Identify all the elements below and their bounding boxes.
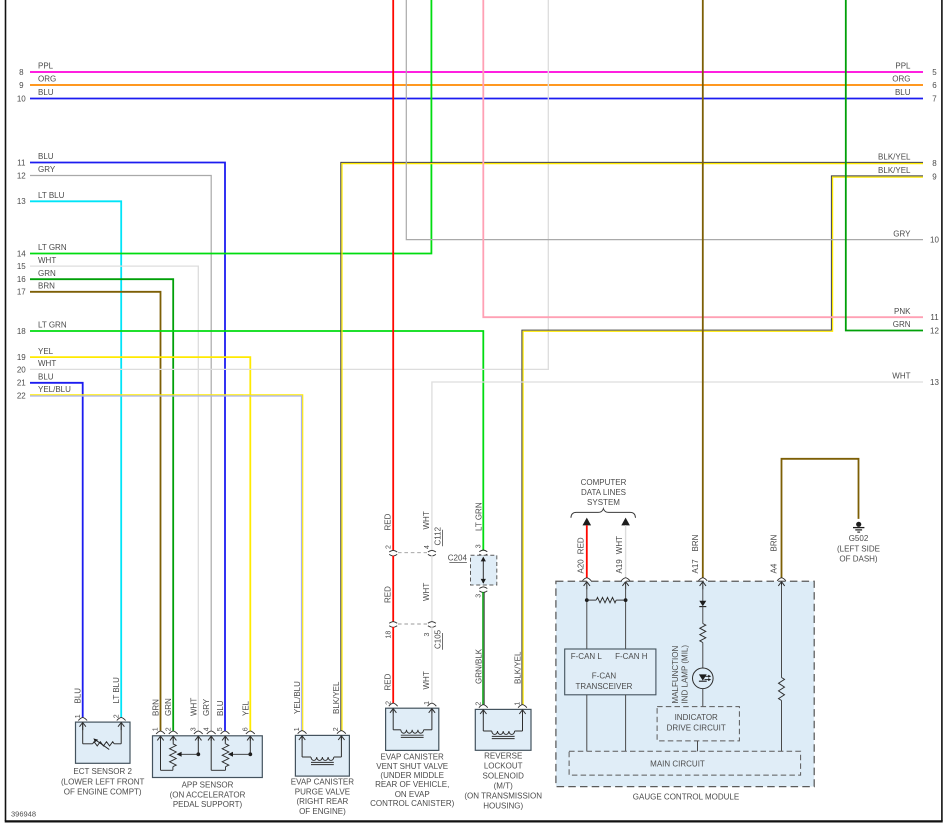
svg-text:MALFUNCTION: MALFUNCTION <box>671 646 680 704</box>
wire BRN from top of page to gauge module pin A17 <box>702 0 704 578</box>
svg-text:BLK/YEL: BLK/YEL <box>514 651 523 684</box>
svg-text:RED: RED <box>383 673 392 690</box>
svg-text:11: 11 <box>930 313 939 322</box>
svg-text:22: 22 <box>17 391 26 400</box>
svg-text:YEL: YEL <box>241 700 250 716</box>
svg-text:RED: RED <box>383 513 392 530</box>
svg-text:BLK/YEL: BLK/YEL <box>878 153 911 162</box>
svg-text:C105: C105 <box>434 629 443 649</box>
svg-text:ON EVAP: ON EVAP <box>395 790 430 799</box>
wire BLK/YEL right row 8 to EVAP purge valve pin 2 <box>341 162 923 730</box>
potentiometer 2 inside APP sensor <box>210 736 212 771</box>
svg-text:(UNDER MIDDLE: (UNDER MIDDLE <box>380 771 444 780</box>
svg-text:BLK/YEL: BLK/YEL <box>332 681 341 714</box>
resistor between A20 and A19 CAN lines <box>587 599 596 601</box>
svg-text:G502: G502 <box>849 534 869 543</box>
svg-text:DRIVE CIRCUIT: DRIVE CIRCUIT <box>667 723 726 732</box>
wire LT GRN row 18 to connector C204 pin 3 <box>30 331 483 551</box>
svg-text:BLU: BLU <box>895 88 911 97</box>
wire GRY right row 10 from top of page <box>406 0 923 240</box>
svg-text:LT BLU: LT BLU <box>38 191 65 200</box>
wire LT BLU row 13 to ECT sensor pin 2 <box>30 201 121 717</box>
svg-text:LT GRN: LT GRN <box>38 243 67 252</box>
dashed connector line C105 <box>398 623 427 625</box>
svg-text:YEL: YEL <box>38 347 54 356</box>
svg-text:WHT: WHT <box>422 583 431 601</box>
wire MIL to indicator drive circuit <box>702 689 704 707</box>
svg-text:11: 11 <box>17 158 26 167</box>
svg-text:GRN: GRN <box>164 698 173 716</box>
svg-text:(RIGHT REAR: (RIGHT REAR <box>296 797 348 806</box>
svg-text:YEL/BLU: YEL/BLU <box>293 681 302 714</box>
svg-text:GRY: GRY <box>202 698 211 716</box>
svg-text:20: 20 <box>17 365 26 374</box>
malfunction indicator lamp MIL <box>693 668 714 689</box>
svg-text:(ON TRANSMISSION: (ON TRANSMISSION <box>464 792 542 801</box>
svg-text:A4: A4 <box>770 563 779 573</box>
svg-text:8: 8 <box>932 159 937 168</box>
wire LT GRN row 14 from top of page <box>30 0 431 254</box>
wire F-CAN H to main circuit <box>625 695 627 753</box>
wire GRN row 16 to APP sensor pin 2 <box>30 279 173 731</box>
svg-text:15: 15 <box>17 262 26 271</box>
svg-text:LT BLU: LT BLU <box>112 677 121 704</box>
INDICATOR DRIVE CIRCUIT dashed block <box>657 707 739 741</box>
svg-text:A20: A20 <box>576 559 585 574</box>
wire GRY row 12 to APP sensor pin 4 <box>30 176 211 731</box>
connector C204 inline connector <box>471 555 497 585</box>
svg-text:WHT: WHT <box>892 372 910 381</box>
ECT sensor 2 box <box>76 722 131 763</box>
wire indicator drive circuit to main circuit <box>697 741 699 752</box>
svg-text:PEDAL SUPPORT): PEDAL SUPPORT) <box>173 800 243 809</box>
svg-text:13: 13 <box>930 378 939 387</box>
svg-text:OF ENGINE): OF ENGINE) <box>299 807 346 816</box>
svg-text:REVERSE: REVERSE <box>484 752 522 761</box>
svg-text:1: 1 <box>424 701 431 705</box>
svg-text:LT GRN: LT GRN <box>474 502 483 531</box>
svg-text:13: 13 <box>17 197 26 206</box>
svg-text:GRY: GRY <box>893 229 911 238</box>
wire WHT segment between C112 and C105 <box>431 556 433 622</box>
svg-text:TRANSCEIVER: TRANSCEIVER <box>576 682 633 691</box>
dashed connector line C112 <box>398 552 427 554</box>
svg-text:SYSTEM: SYSTEM <box>587 498 620 507</box>
svg-text:1: 1 <box>153 727 160 731</box>
svg-text:6: 6 <box>932 81 937 90</box>
svg-text:CONTROL CANISTER): CONTROL CANISTER) <box>370 799 454 808</box>
F-CAN TRANSCEIVER block <box>565 649 656 695</box>
module pin A4 arrow <box>781 582 783 590</box>
svg-text:RED: RED <box>383 586 392 603</box>
svg-text:OF DASH): OF DASH) <box>839 554 878 563</box>
solenoid coil inside purge valve <box>301 735 303 757</box>
svg-text:10: 10 <box>17 94 26 103</box>
svg-text:LT GRN: LT GRN <box>38 321 67 330</box>
svg-text:BRN: BRN <box>691 534 700 551</box>
connector C112 break on RED wire pin 2 <box>389 550 397 552</box>
svg-text:3: 3 <box>191 727 198 731</box>
svg-text:SOLENOID: SOLENOID <box>483 772 525 781</box>
svg-text:VENT SHUT VALVE: VENT SHUT VALVE <box>376 762 448 771</box>
svg-text:C204: C204 <box>448 554 468 563</box>
svg-text:F-CAN L: F-CAN L <box>571 652 603 661</box>
wire WHT right row 13 to vent shut valve pin 1 <box>432 382 923 551</box>
APP sensor box <box>153 736 263 778</box>
EVAP canister vent shut valve box <box>386 708 439 750</box>
junction dot A20 line <box>585 598 589 602</box>
svg-text:18: 18 <box>385 631 392 639</box>
svg-text:GRN: GRN <box>38 269 56 278</box>
svg-text:16: 16 <box>17 275 26 284</box>
wire PPL row 8-5 <box>30 71 923 73</box>
svg-text:BRN: BRN <box>38 282 55 291</box>
wire A20 internal to F-CAN transceiver <box>586 585 588 649</box>
wire YEL/BLU row 22 to EVAP purge valve pin 1 <box>30 395 303 731</box>
svg-text:A17: A17 <box>691 559 700 574</box>
svg-text:DATA LINES: DATA LINES <box>581 488 626 497</box>
wire WHT row 20 from top of page <box>30 0 548 369</box>
module pin A19 arrow <box>625 582 627 590</box>
svg-text:12: 12 <box>930 326 939 335</box>
ground G502 <box>856 522 861 527</box>
svg-text:BLU: BLU <box>38 373 54 382</box>
svg-text:BLU: BLU <box>216 700 225 716</box>
svg-text:2: 2 <box>476 702 483 706</box>
wire BLK/YEL right row 9 to reverse lockout solenoid pin 1 <box>522 176 923 705</box>
thermistor inside ECT sensor <box>82 722 84 744</box>
svg-text:(LOWER LEFT FRONT: (LOWER LEFT FRONT <box>61 777 145 786</box>
wire RED stub module pin A20 to data lines arrow <box>583 518 592 526</box>
svg-text:(LEFT SIDE: (LEFT SIDE <box>837 544 880 553</box>
diode on A17 line <box>702 585 704 601</box>
svg-text:F-CAN H: F-CAN H <box>615 652 648 661</box>
svg-text:396948: 396948 <box>11 810 36 819</box>
wire BRN row 17 to APP sensor pin 1 <box>30 292 161 731</box>
wire A19 internal to F-CAN transceiver <box>625 585 627 649</box>
wire GRN/BLK from C204 to reverse lockout solenoid pin 2 <box>479 587 487 589</box>
svg-text:YEL/BLU: YEL/BLU <box>38 385 71 394</box>
svg-text:5: 5 <box>217 727 224 731</box>
svg-text:INDICATOR: INDICATOR <box>675 713 718 722</box>
svg-text:14: 14 <box>17 249 26 258</box>
svg-text:19: 19 <box>17 353 26 362</box>
solenoid coil inside reverse lockout solenoid <box>482 709 484 731</box>
wire RED segment between C112 and C105 <box>392 556 394 622</box>
svg-text:REAR OF VEHICLE,: REAR OF VEHICLE, <box>375 780 449 789</box>
svg-text:BLU: BLU <box>38 88 54 97</box>
svg-text:5: 5 <box>932 68 937 77</box>
wire F-CAN L to main circuit <box>586 695 588 753</box>
svg-text:4: 4 <box>424 545 431 549</box>
resistor on A17 line <box>702 607 704 624</box>
wire YEL row 19 to APP sensor pin 6 <box>30 357 250 731</box>
svg-text:HOUSING): HOUSING) <box>483 802 523 811</box>
svg-text:1: 1 <box>294 727 301 731</box>
reverse lockout solenoid box <box>475 709 531 750</box>
module pin A17 arrow <box>702 582 704 590</box>
svg-text:F-CAN: F-CAN <box>592 672 617 681</box>
wire RED from top of page to vent shut valve pin 2 <box>392 0 394 551</box>
svg-text:21: 21 <box>17 379 26 388</box>
svg-text:(M/T): (M/T) <box>494 782 513 791</box>
svg-text:3: 3 <box>476 544 483 548</box>
svg-text:10: 10 <box>930 236 939 245</box>
svg-text:(ON ACCELERATOR: (ON ACCELERATOR <box>170 790 246 799</box>
svg-text:PPL: PPL <box>895 62 911 71</box>
EVAP canister purge valve box <box>295 735 349 776</box>
svg-text:3: 3 <box>476 594 483 598</box>
svg-text:A19: A19 <box>615 559 624 574</box>
wire WHT segment to vent shut valve pin 1 <box>431 627 433 703</box>
potentiometer 1 inside APP sensor <box>160 736 162 771</box>
solenoid coil inside vent shut valve <box>392 708 394 730</box>
svg-text:4: 4 <box>203 727 210 731</box>
wire BLU row 21 to ECT sensor pin 1 <box>30 383 83 718</box>
svg-text:1: 1 <box>75 714 82 718</box>
svg-text:12: 12 <box>17 171 26 180</box>
connector C112 break on WHT wire pin 4 <box>428 550 436 552</box>
svg-text:PNK: PNK <box>894 307 911 316</box>
svg-text:2: 2 <box>165 727 172 731</box>
wire RED segment to vent shut valve pin 2 <box>392 627 394 703</box>
svg-text:WHT: WHT <box>189 698 198 716</box>
svg-text:COMPUTER: COMPUTER <box>581 478 627 487</box>
svg-text:RED: RED <box>576 537 585 554</box>
connector C105 break on RED wire pin 18 <box>389 622 397 624</box>
svg-text:ORG: ORG <box>892 75 910 84</box>
wire BLU row 10-7 <box>30 98 923 100</box>
svg-text:BLK/YEL: BLK/YEL <box>878 166 911 175</box>
svg-text:PURGE VALVE: PURGE VALVE <box>295 787 350 796</box>
gauge control module U1 dashed box <box>556 581 814 786</box>
svg-text:2: 2 <box>333 727 340 731</box>
wire WHT row 15 to APP sensor pin 3 <box>30 266 198 731</box>
svg-text:2: 2 <box>385 701 392 705</box>
svg-text:ORG: ORG <box>38 75 56 84</box>
svg-text:EVAP CANISTER: EVAP CANISTER <box>291 778 355 787</box>
svg-text:6: 6 <box>243 727 250 731</box>
svg-text:GAUGE CONTROL MODULE: GAUGE CONTROL MODULE <box>633 792 739 801</box>
svg-text:WHT: WHT <box>38 256 56 265</box>
svg-text:2: 2 <box>385 545 392 549</box>
svg-text:WHT: WHT <box>38 359 56 368</box>
svg-text:7: 7 <box>932 94 937 103</box>
svg-text:IND LAMP (MIL): IND LAMP (MIL) <box>681 645 690 704</box>
svg-text:2: 2 <box>113 714 120 718</box>
junction dot A19 line <box>624 598 628 602</box>
svg-text:8: 8 <box>19 68 24 77</box>
svg-text:WHT: WHT <box>422 511 431 529</box>
svg-text:MAIN CIRCUIT: MAIN CIRCUIT <box>650 759 705 768</box>
svg-text:EVAP CANISTER: EVAP CANISTER <box>381 753 445 762</box>
svg-text:WHT: WHT <box>615 536 624 554</box>
svg-text:9: 9 <box>19 81 24 90</box>
wire ORG row 9-6 <box>30 84 923 86</box>
svg-text:LOCKOUT: LOCKOUT <box>484 762 523 771</box>
brace over data line arrows <box>571 509 636 518</box>
svg-text:GRY: GRY <box>38 165 56 174</box>
svg-text:BLU: BLU <box>38 152 54 161</box>
svg-text:BLU: BLU <box>74 688 83 704</box>
svg-text:9: 9 <box>932 172 937 181</box>
wire PNK right row 11 from top of page <box>483 0 923 317</box>
svg-text:GRN: GRN <box>893 320 911 329</box>
svg-text:WHT: WHT <box>422 671 431 689</box>
module pin A20 arrow <box>586 582 588 590</box>
resistor on A4 line <box>781 585 783 678</box>
svg-text:PPL: PPL <box>38 62 54 71</box>
svg-text:ECT SENSOR 2: ECT SENSOR 2 <box>73 767 132 776</box>
wire BRN from gauge module pin A4 to ground G502 <box>782 459 859 578</box>
wire BLU row 11 to APP sensor pin 5 <box>30 163 225 731</box>
svg-text:OF ENGINE COMPT): OF ENGINE COMPT) <box>64 788 142 797</box>
svg-text:18: 18 <box>17 327 26 336</box>
svg-text:GRN/BLK: GRN/BLK <box>474 648 483 684</box>
svg-text:3: 3 <box>424 633 431 637</box>
svg-text:1: 1 <box>515 702 522 706</box>
svg-text:APP SENSOR: APP SENSOR <box>182 781 234 790</box>
svg-text:BRN: BRN <box>770 534 779 551</box>
connector C105 break on WHT wire pin 3 <box>428 622 436 624</box>
svg-text:C112: C112 <box>434 526 443 545</box>
wire WHT stub module pin A19 to data lines arrow <box>621 518 630 526</box>
svg-text:BRN: BRN <box>152 699 161 716</box>
svg-text:17: 17 <box>17 288 26 297</box>
MAIN CIRCUIT dashed block <box>569 751 801 775</box>
wire GRN right row 12 from top of page <box>846 0 923 331</box>
